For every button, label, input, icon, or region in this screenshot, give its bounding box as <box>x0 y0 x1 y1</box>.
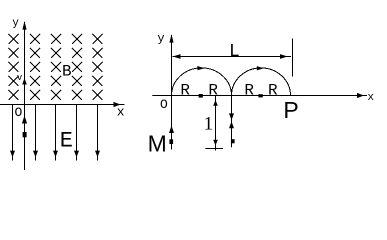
svg-text:R: R <box>244 81 254 99</box>
svg-text:P: P <box>283 97 298 123</box>
L dimension right arrowhead <box>280 54 288 59</box>
cross r4c4 <box>72 76 82 86</box>
svg-text:M: M <box>148 131 167 157</box>
svg-text:v: v <box>17 73 23 83</box>
l dimension bottom bar <box>205 148 223 150</box>
trajectory vertical segment below axis <box>231 96 233 148</box>
velocity arrowhead on y-axis <box>22 78 27 85</box>
L dimension line <box>173 56 292 58</box>
start velocity arrowhead below origin (right) <box>169 126 174 134</box>
svg-text:R: R <box>180 81 190 99</box>
cross r1c5 <box>93 34 103 44</box>
left x-axis <box>0 104 125 106</box>
svg-text:1: 1 <box>204 114 214 135</box>
svg-text:E: E <box>60 129 73 154</box>
cross r5c3 <box>51 90 61 100</box>
right x-axis <box>152 95 367 97</box>
E arrow 4 <box>76 105 78 161</box>
right y-axis <box>171 35 173 150</box>
svg-text:O: O <box>160 97 168 112</box>
svg-text:R: R <box>268 81 278 99</box>
svg-text:L: L <box>229 42 240 62</box>
cross r3c2 <box>30 62 40 72</box>
cross r4c5 <box>93 76 103 86</box>
svg-text:R: R <box>208 81 218 99</box>
svg-text:x: x <box>367 92 374 104</box>
cross r5c2 <box>30 90 40 100</box>
arc 2 direction arrowhead <box>257 66 264 70</box>
arc 1 direction arrowhead <box>197 66 204 70</box>
semicircle arc 2 <box>232 68 291 96</box>
trajectory up arrowhead <box>229 121 234 128</box>
svg-text:O: O <box>15 105 23 120</box>
particle square dot (left) <box>23 132 27 137</box>
l dimension down arrowhead <box>213 140 218 146</box>
cross r5c4 <box>72 90 82 100</box>
E arrow 1 <box>12 105 14 161</box>
cross r3c1 <box>9 62 19 72</box>
cross r2c3 <box>51 48 61 58</box>
cross r4c2 <box>30 76 40 86</box>
l dimension up arrowhead <box>213 100 218 106</box>
arc 2 center dot <box>258 94 262 97</box>
l dimension line <box>215 96 217 151</box>
trajectory square dot <box>231 139 235 143</box>
cross r3c5 <box>93 62 103 72</box>
right x-axis arrowhead <box>357 93 364 98</box>
cross r2c5 <box>93 48 103 58</box>
particle velocity arrowhead below origin (left) <box>22 116 27 124</box>
cross r1c2 <box>30 34 40 44</box>
cross r2c2 <box>30 48 40 58</box>
E arrow 3 <box>55 105 57 161</box>
E-field arrows <box>10 105 100 161</box>
arc 1 center dot <box>199 94 203 98</box>
B-field cross grid <box>9 34 103 100</box>
svg-text:y: y <box>157 32 164 46</box>
left y-axis arrowhead <box>22 21 26 30</box>
cross r1c4 <box>72 34 82 44</box>
cross r5c1 <box>9 90 19 100</box>
cross r2c1 <box>9 48 19 58</box>
svg-text:x: x <box>117 104 125 119</box>
E arrow 2 <box>35 105 37 161</box>
cross r1c1 <box>9 34 19 44</box>
right y-axis arrowhead <box>169 34 173 42</box>
semicircle arc 1 <box>172 68 232 96</box>
cross r5c5 <box>93 90 103 100</box>
cross r3c3 <box>51 62 61 72</box>
cross r4c3 <box>51 76 61 86</box>
cross r3c4 <box>72 62 82 72</box>
L dimension left arrowhead <box>173 54 181 59</box>
L dimension right extension tick <box>292 39 294 77</box>
E arrow 5 <box>97 105 99 161</box>
left y-axis <box>24 22 26 170</box>
svg-text:y: y <box>12 18 19 30</box>
cross r2c4 <box>72 48 82 58</box>
start square dot M (right) <box>169 139 173 144</box>
trajectory down arrowhead <box>229 113 234 120</box>
cross r1c3 <box>51 34 61 44</box>
left x-axis arrowhead <box>114 102 121 107</box>
svg-text:B: B <box>62 62 72 80</box>
cross r4c1 <box>9 76 19 86</box>
